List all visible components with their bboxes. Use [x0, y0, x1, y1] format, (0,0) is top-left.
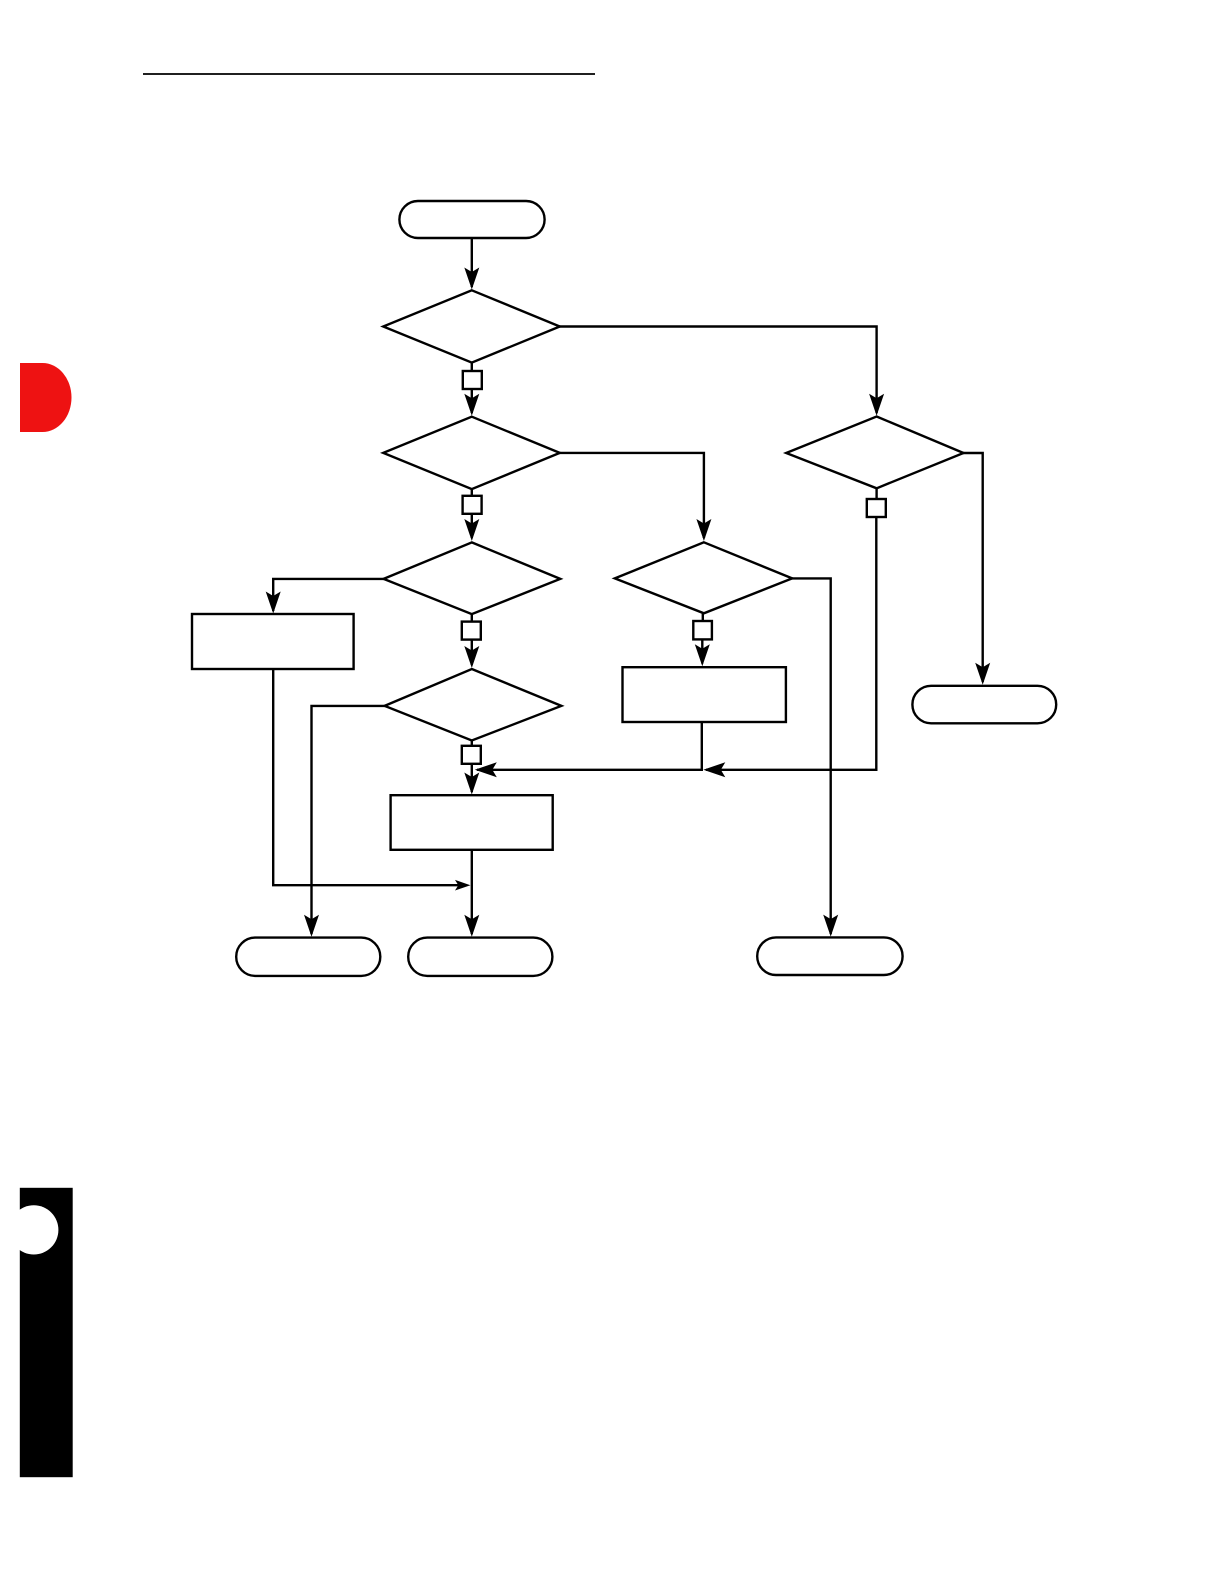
arrowhead into P2 [695, 644, 710, 666]
arrowhead into P1 [266, 592, 281, 614]
wire P1 bottom down and right to junction on P3-T3 line [273, 669, 467, 885]
decision D5 [786, 417, 963, 489]
arrowhead into D3 [464, 519, 479, 541]
arrowhead left at junction [475, 762, 497, 777]
arrowhead into T2 [304, 915, 319, 937]
process P3 [391, 795, 553, 850]
decision D1 [383, 290, 560, 362]
wire P2 bottom down and left to junction on S4-P3 line [477, 722, 702, 770]
decision D6 [615, 542, 792, 613]
white hole in thumb-index bar [9, 1205, 58, 1254]
wire S3 to D4 [471, 639, 473, 665]
wire D2 right to D6 [559, 453, 704, 538]
decision D3 [384, 542, 561, 614]
terminator T2 [236, 938, 380, 976]
terminator T4 [912, 686, 1056, 724]
wire D5 right to terminator T4 [962, 453, 983, 682]
connector square S3 [462, 622, 481, 640]
terminator T5 [757, 937, 902, 975]
arrowhead into T4 [975, 663, 990, 685]
wire D4 left to terminator T2 [312, 706, 386, 934]
wire D1 bottom to square S1 [471, 363, 473, 372]
decision D2 [383, 417, 560, 489]
connector square S2 [463, 496, 482, 514]
wire D3 left to P1 [273, 579, 384, 611]
arrowhead into D6 [696, 519, 711, 541]
wire D4 bottom to square S4 [471, 741, 473, 747]
arrowhead right at junction [455, 880, 470, 891]
terminator T3 [408, 938, 552, 976]
wire S6 to P2 [701, 639, 703, 663]
wire S5 down and left to junction below S4 line [706, 517, 876, 770]
wire S1 to D2 [471, 389, 473, 413]
decision D4 [385, 669, 562, 741]
wire D2 bottom to square S2 [471, 489, 473, 496]
connector square S1 [463, 371, 482, 389]
connector square S5 [867, 499, 886, 517]
arrowhead into T5 [823, 915, 838, 937]
wire D6 bottom to square S6 [702, 613, 704, 621]
wire D5 bottom to square S5 [875, 488, 877, 499]
header rule [143, 73, 595, 75]
arrowhead into D5 [869, 394, 884, 416]
connector square S6 [693, 621, 712, 639]
arrowhead into P3 [464, 773, 479, 795]
wire D1 right to D5 [559, 327, 877, 414]
wire D3 bottom to square S3 [471, 614, 473, 622]
wire D6 right to terminator T5 [791, 578, 831, 934]
arrowhead into D2 [464, 394, 479, 416]
process P2 [623, 667, 786, 722]
wire S4 to P3 [471, 764, 473, 793]
arrowhead into D1 [464, 268, 479, 290]
wire S2 to D3 [471, 514, 473, 539]
arrowhead into T3 [464, 915, 479, 937]
connector square S4 [462, 746, 481, 764]
arrowhead left at junction [703, 762, 725, 777]
process P1 [192, 614, 354, 669]
wire T1 to D1 [471, 238, 473, 287]
black thumb-index bar [20, 1188, 73, 1477]
terminator T1 (start) [399, 201, 544, 238]
arrowhead into D4 [464, 646, 479, 668]
wire P3 bottom to terminator T3 [471, 850, 473, 934]
red bleed tab [20, 363, 72, 432]
